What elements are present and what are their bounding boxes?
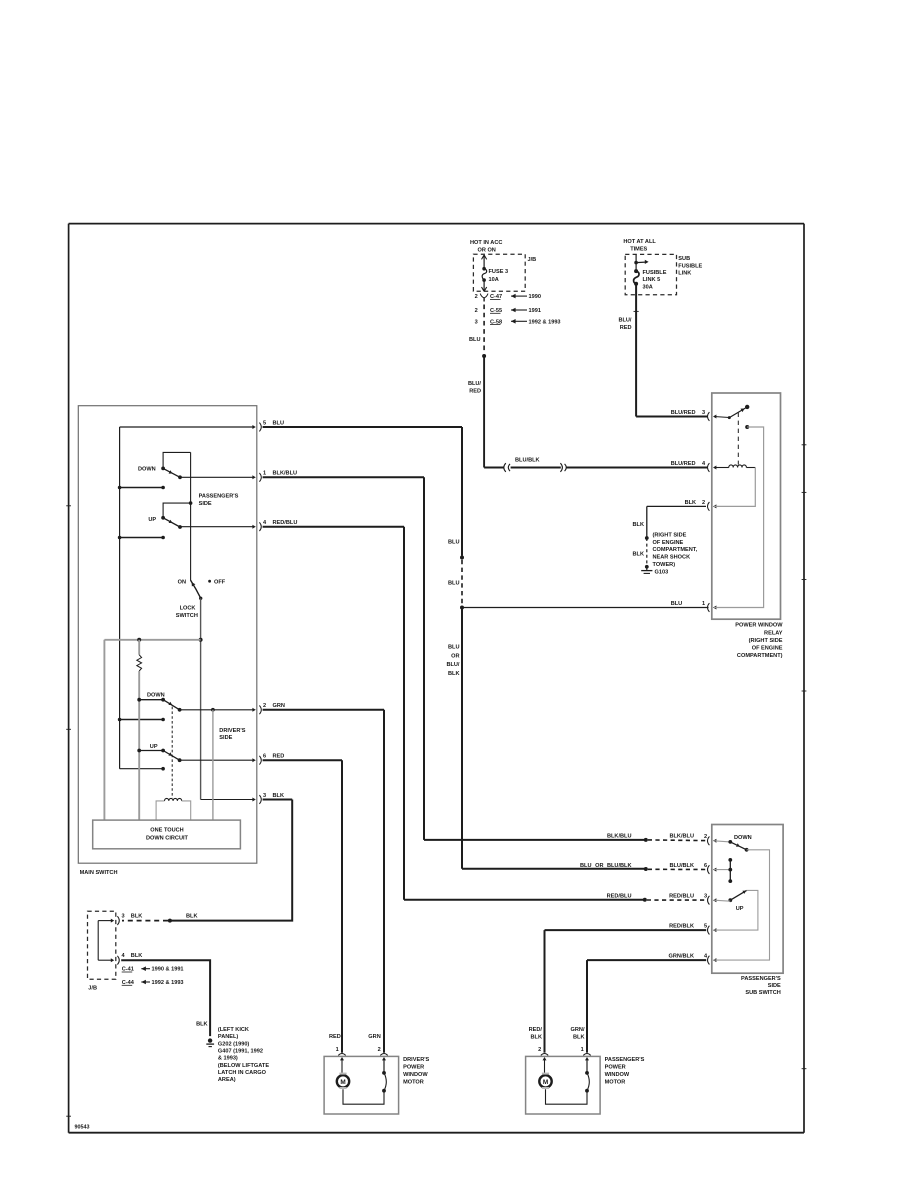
svg-text:BLK/BLU: BLK/BLU — [273, 471, 298, 477]
svg-text:LATCH IN CARGO: LATCH IN CARGO — [218, 1070, 267, 1076]
svg-text:LOCK: LOCK — [180, 606, 196, 612]
svg-text:1990 & 1991: 1990 & 1991 — [152, 967, 184, 973]
svg-text:BLK/BLU: BLK/BLU — [607, 834, 632, 840]
svg-text:UP: UP — [150, 744, 158, 750]
svg-text:HOT AT ALL: HOT AT ALL — [623, 239, 656, 245]
svg-text:& 1993): & 1993) — [218, 1056, 238, 1062]
svg-text:J/B: J/B — [528, 257, 537, 263]
svg-text:UP: UP — [148, 517, 156, 523]
svg-text:BLK: BLK — [633, 522, 645, 528]
svg-text:UP: UP — [736, 906, 744, 912]
svg-text:6: 6 — [704, 863, 707, 869]
svg-text:RED: RED — [469, 389, 481, 395]
svg-text:1990: 1990 — [529, 294, 541, 300]
svg-text:DOWN: DOWN — [734, 835, 752, 841]
svg-text:RED: RED — [273, 754, 285, 760]
svg-text:BLU/BLK: BLU/BLK — [669, 863, 694, 869]
svg-text:GRN: GRN — [368, 1034, 380, 1040]
svg-text:PASSENGER'S: PASSENGER'S — [741, 976, 781, 982]
svg-text:RED/BLU: RED/BLU — [273, 520, 298, 526]
svg-text:BLK: BLK — [131, 914, 143, 920]
svg-text:DOWN CIRCUIT: DOWN CIRCUIT — [146, 836, 189, 842]
svg-text:OFF: OFF — [214, 579, 226, 585]
svg-text:LINK 5: LINK 5 — [643, 277, 661, 283]
svg-text:5: 5 — [704, 923, 707, 929]
svg-text:OF ENGINE: OF ENGINE — [653, 540, 684, 546]
svg-text:6: 6 — [263, 754, 266, 760]
svg-text:DOWN: DOWN — [147, 692, 165, 698]
svg-text:WINDOW: WINDOW — [403, 1072, 428, 1078]
svg-text:HOT IN ACC: HOT IN ACC — [470, 240, 502, 246]
svg-text:RED/BLK: RED/BLK — [669, 923, 694, 929]
svg-text:BLU: BLU — [448, 645, 460, 651]
svg-text:(RIGHT SIDE: (RIGHT SIDE — [749, 638, 783, 644]
svg-text:RED/: RED/ — [529, 1027, 543, 1033]
svg-text:1991: 1991 — [529, 308, 541, 314]
svg-text:2: 2 — [263, 703, 266, 709]
svg-text:POWER: POWER — [605, 1065, 626, 1071]
svg-text:RED: RED — [620, 325, 632, 331]
svg-text:BLU: BLU — [273, 420, 285, 426]
svg-text:3: 3 — [475, 319, 478, 325]
svg-text:SIDE: SIDE — [199, 501, 212, 507]
svg-text:BLU/: BLU/ — [446, 662, 459, 668]
svg-text:SIDE: SIDE — [768, 983, 781, 989]
svg-text:90543: 90543 — [75, 1125, 90, 1131]
svg-text:FUSE 3: FUSE 3 — [489, 269, 509, 275]
svg-text:OR: OR — [595, 863, 603, 869]
svg-text:LINK: LINK — [678, 271, 691, 277]
svg-text:BLK: BLK — [186, 914, 198, 920]
svg-text:NEAR SHOCK: NEAR SHOCK — [653, 555, 691, 561]
svg-text:BLK: BLK — [196, 1021, 208, 1027]
svg-text:RED: RED — [329, 1034, 341, 1040]
svg-text:PASSENGER'S: PASSENGER'S — [605, 1057, 645, 1063]
svg-text:GRN/: GRN/ — [571, 1027, 585, 1033]
svg-text:1: 1 — [263, 471, 266, 477]
svg-text:3: 3 — [122, 914, 125, 920]
svg-text:GRN/BLK: GRN/BLK — [669, 953, 694, 959]
svg-text:OR: OR — [451, 653, 459, 659]
svg-text:RED/BLU: RED/BLU — [669, 893, 694, 899]
svg-text:2: 2 — [702, 500, 705, 506]
svg-text:BLU: BLU — [448, 540, 460, 546]
svg-text:2: 2 — [704, 834, 707, 840]
svg-text:POWER WINDOW: POWER WINDOW — [735, 623, 783, 629]
svg-text:TIMES: TIMES — [630, 246, 647, 252]
svg-text:BLU/: BLU/ — [468, 381, 481, 387]
svg-text:RED/BLU: RED/BLU — [607, 893, 632, 899]
svg-text:BLK: BLK — [448, 671, 460, 677]
svg-text:4: 4 — [122, 953, 126, 959]
svg-text:AREA): AREA) — [218, 1077, 236, 1083]
svg-text:ON: ON — [178, 579, 186, 585]
svg-text:COMPARTMENT): COMPARTMENT) — [737, 653, 783, 659]
svg-text:G202 (1990): G202 (1990) — [218, 1041, 250, 1047]
svg-text:BLU/BLK: BLU/BLK — [515, 458, 540, 464]
svg-text:3: 3 — [263, 793, 266, 799]
svg-text:BLK/BLU: BLK/BLU — [669, 834, 694, 840]
svg-text:BLU: BLU — [469, 337, 481, 343]
svg-text:(BELOW LIFTGATE: (BELOW LIFTGATE — [218, 1063, 269, 1069]
svg-text:POWER: POWER — [403, 1065, 424, 1071]
svg-text:G103: G103 — [655, 569, 669, 575]
svg-text:1992 & 1993: 1992 & 1993 — [152, 980, 184, 986]
svg-text:ONE TOUCH: ONE TOUCH — [150, 828, 183, 834]
svg-text:10A: 10A — [489, 277, 499, 283]
svg-text:SIDE: SIDE — [219, 735, 232, 741]
svg-text:DRIVER'S: DRIVER'S — [403, 1057, 429, 1063]
svg-text:BLU: BLU — [580, 863, 592, 869]
svg-text:TOWER): TOWER) — [653, 562, 676, 568]
svg-text:4: 4 — [702, 461, 706, 467]
svg-text:BLU/BLK: BLU/BLK — [607, 863, 632, 869]
svg-text:BLK: BLK — [131, 953, 143, 959]
svg-text:M: M — [340, 1079, 345, 1086]
svg-text:M: M — [543, 1079, 548, 1086]
svg-text:(LEFT KICK: (LEFT KICK — [218, 1027, 249, 1033]
svg-text:BLK: BLK — [633, 552, 645, 558]
svg-text:BLK: BLK — [273, 793, 285, 799]
svg-text:BLU/: BLU/ — [618, 317, 631, 323]
svg-text:BLU/RED: BLU/RED — [671, 410, 696, 416]
svg-text:1992 & 1993: 1992 & 1993 — [529, 319, 561, 325]
svg-text:SUB SWITCH: SUB SWITCH — [745, 990, 780, 996]
svg-text:OR ON: OR ON — [478, 247, 496, 253]
svg-text:1: 1 — [336, 1047, 339, 1053]
svg-text:3: 3 — [702, 410, 705, 416]
svg-text:BLU/RED: BLU/RED — [671, 461, 696, 467]
svg-text:2: 2 — [378, 1047, 381, 1053]
svg-text:2: 2 — [475, 294, 478, 300]
svg-text:5: 5 — [263, 420, 266, 426]
svg-text:BLK: BLK — [531, 1035, 543, 1041]
svg-text:BLK: BLK — [685, 500, 697, 506]
svg-text:DRIVER'S: DRIVER'S — [219, 728, 245, 734]
svg-text:2: 2 — [538, 1047, 541, 1053]
svg-text:BLK: BLK — [573, 1035, 585, 1041]
svg-text:G407 (1991, 1992: G407 (1991, 1992 — [218, 1048, 263, 1054]
svg-text:RELAY: RELAY — [764, 630, 783, 636]
svg-text:2: 2 — [475, 308, 478, 314]
svg-text:(RIGHT SIDE: (RIGHT SIDE — [653, 533, 687, 539]
svg-text:WINDOW: WINDOW — [605, 1072, 630, 1078]
svg-text:3: 3 — [704, 893, 707, 899]
svg-text:MOTOR: MOTOR — [403, 1080, 424, 1086]
svg-text:DOWN: DOWN — [138, 466, 156, 472]
svg-text:PASSENGER'S: PASSENGER'S — [199, 494, 239, 500]
svg-text:SWITCH: SWITCH — [176, 613, 198, 619]
svg-text:SUB: SUB — [678, 256, 690, 262]
svg-text:PANEL): PANEL) — [218, 1034, 239, 1040]
svg-text:BLU: BLU — [671, 601, 683, 607]
svg-text:FUSIBLE: FUSIBLE — [678, 263, 702, 269]
svg-text:FUSIBLE: FUSIBLE — [643, 270, 667, 276]
svg-text:30A: 30A — [643, 285, 653, 291]
svg-text:COMPARTMENT,: COMPARTMENT, — [653, 547, 698, 553]
svg-text:MOTOR: MOTOR — [605, 1080, 626, 1086]
svg-text:4: 4 — [263, 520, 267, 526]
svg-text:GRN: GRN — [273, 703, 285, 709]
svg-text:1: 1 — [702, 601, 705, 607]
svg-text:OF ENGINE: OF ENGINE — [752, 646, 783, 652]
svg-text:BLU: BLU — [448, 580, 460, 586]
svg-text:MAIN SWITCH: MAIN SWITCH — [80, 870, 118, 876]
svg-text:J/B: J/B — [88, 986, 97, 992]
svg-text:1: 1 — [581, 1047, 584, 1053]
